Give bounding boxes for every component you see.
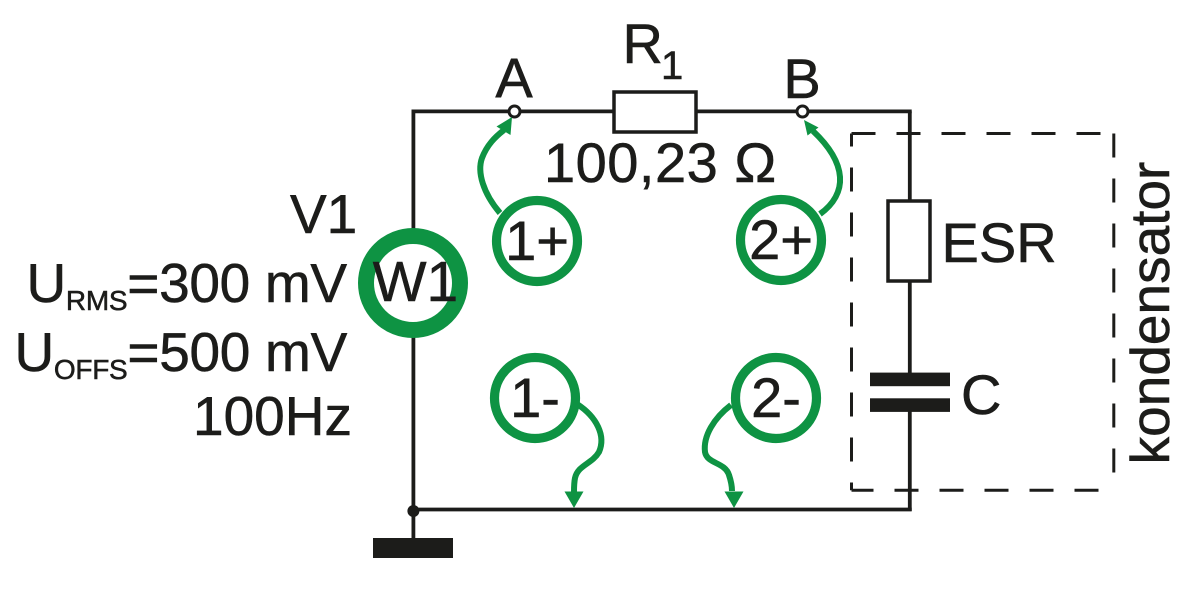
svg-text:kondensator: kondensator: [1119, 162, 1181, 465]
svg-text:URMS=300 mV: URMS=300 mV: [27, 252, 348, 316]
wire top horizontal A-B: [412, 110, 912, 114]
arrowhead at node B: [804, 120, 819, 136]
svg-text:1: 1: [661, 44, 683, 88]
capacitor C plates: [870, 373, 950, 387]
svg-text:2-: 2-: [751, 366, 801, 429]
arrowhead at node A: [497, 117, 513, 135]
arrow from 2- to bottom wire: [705, 405, 732, 491]
node B: [797, 106, 808, 117]
arrow from 2+ to node B: [813, 131, 840, 214]
probe circle 2+: [741, 200, 822, 281]
probe circle 1+: [497, 201, 578, 282]
svg-text:1+: 1+: [505, 209, 569, 272]
green probe arrows: [480, 130, 840, 492]
source W1 circle: [366, 236, 460, 330]
resistor R1 body: [614, 92, 696, 132]
svg-text:UOFFS=500 mV: UOFFS=500 mV: [15, 321, 348, 385]
probe circle 2-: [736, 358, 817, 439]
node A: [509, 106, 520, 117]
svg-text:R: R: [623, 12, 663, 75]
svg-text:W1: W1: [373, 250, 459, 314]
arrow from 1- to bottom wire: [574, 404, 601, 492]
junction dot at ground node: [407, 505, 419, 517]
resistor ESR body: [888, 201, 930, 281]
svg-text:1-: 1-: [510, 366, 560, 429]
svg-text:100,23 Ω: 100,23 Ω: [544, 131, 777, 194]
svg-text:100Hz: 100Hz: [193, 385, 352, 447]
svg-text:V1: V1: [290, 183, 357, 245]
svg-text:ESR: ESR: [942, 211, 1057, 274]
arrowhead at bottom wire from 2-: [725, 492, 744, 509]
ground stub wire: [411, 511, 415, 540]
wire bottom horizontal: [413, 508, 911, 512]
wire left vertical (source branch): [411, 110, 415, 237]
probe circle 1-: [495, 358, 576, 439]
svg-text:A: A: [495, 46, 533, 109]
arrowhead at bottom wire from 1-: [565, 492, 584, 509]
dashed box (kondensator outline): [852, 134, 1114, 491]
svg-text:C: C: [961, 363, 1001, 426]
svg-text:2+: 2+: [749, 208, 813, 271]
arrow from 1+ to node A: [480, 130, 504, 213]
wire right vertical: [908, 111, 912, 373]
ground symbol: [373, 538, 453, 558]
svg-text:B: B: [783, 47, 820, 110]
